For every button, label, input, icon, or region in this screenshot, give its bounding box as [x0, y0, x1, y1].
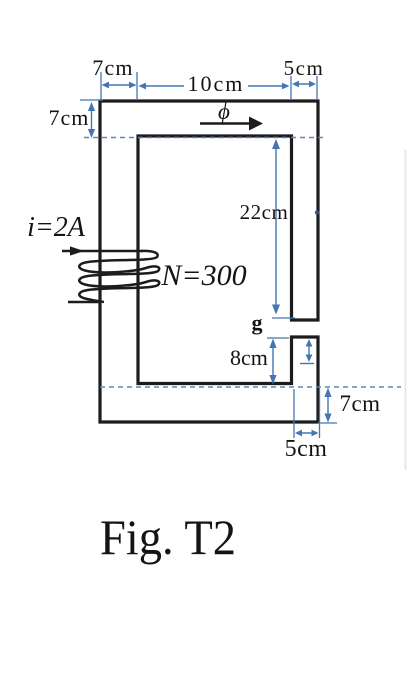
- dimension 5cm top-right: extension lines: [291, 76, 317, 100]
- dimension 10cm top: arrow: [139, 83, 290, 90]
- flux arrow phi: [200, 117, 263, 131]
- svg-text:7cm: 7cm: [49, 105, 90, 130]
- svg-text:i=2A: i=2A: [27, 212, 86, 243]
- coil N=300 on left limb: [79, 251, 159, 302]
- svg-text:8cm: 8cm: [230, 345, 268, 370]
- dimension 8cm: extension line: [267, 337, 289, 339]
- svg-text:7cm: 7cm: [92, 55, 133, 80]
- dimension 5cm bottom: extension lines: [294, 389, 320, 438]
- svg-text:7cm: 7cm: [339, 391, 380, 416]
- page edge faint line: [405, 150, 407, 470]
- svg-text:22cm: 22cm: [240, 200, 289, 224]
- svg-text:g: g: [252, 310, 263, 335]
- dashed reference line top: [84, 137, 326, 139]
- gap depth arrow inside lower limb: [300, 339, 314, 364]
- ink speck on outer edge: [315, 210, 319, 214]
- svg-text:N=300: N=300: [160, 259, 246, 292]
- dimension 5cm top-right: arrow: [292, 81, 316, 88]
- svg-text:10cm: 10cm: [188, 71, 245, 96]
- dimension 8cm: arrow: [269, 339, 276, 385]
- dashed reference line bottom: [100, 386, 401, 388]
- dimension 22cm right limb: arrow: [272, 139, 280, 315]
- dimension 7cm left: extension line: [80, 99, 103, 101]
- dimension 7cm left: arrow: [88, 102, 95, 138]
- svg-text:Fig. T2: Fig. T2: [100, 509, 236, 565]
- current lead bottom: [68, 301, 101, 303]
- dimension 7cm top-left: arrow: [102, 82, 137, 89]
- dimension 7cm right: arrow: [324, 388, 331, 423]
- svg-text:ϕ: ϕ: [218, 99, 230, 124]
- current lead top with arrow: [62, 246, 143, 255]
- dimension 5cm bottom: arrow: [295, 430, 319, 437]
- dimension 7cm right: extension line: [318, 422, 337, 424]
- dimension 7cm top-left: extension lines: [101, 72, 137, 100]
- dimension 22cm: extension line at gap: [272, 317, 295, 319]
- svg-text:5cm: 5cm: [284, 56, 325, 80]
- svg-text:5cm: 5cm: [285, 436, 328, 462]
- magnetic core: [100, 101, 318, 422]
